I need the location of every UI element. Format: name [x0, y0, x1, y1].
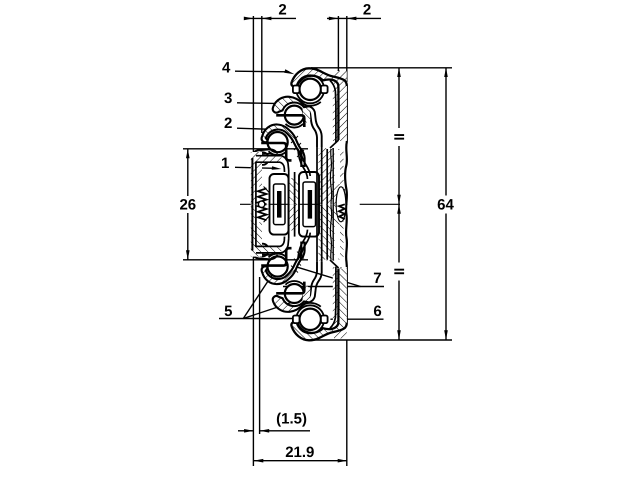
cage scallop under ball 1 — [300, 102, 321, 106]
ball 3 (top small ball) — [268, 132, 288, 152]
arrowheads equals top segment — [397, 68, 401, 78]
member3 wall verticals — [316, 147, 318, 204]
label 1 arrowhead — [272, 166, 282, 170]
svg-text:4: 4 — [222, 60, 231, 77]
slash ball 1 bottom — [303, 312, 318, 327]
cage bar through ball 2 — [276, 115, 304, 127]
wide web hatch band (outer rail, mid) — [319, 149, 344, 204]
ball slashes (section marks) — [271, 82, 318, 327]
svg-text:1: 1 — [221, 155, 229, 172]
left centre block (full) — [270, 174, 289, 235]
(1.5) dimension line — [238, 430, 254, 432]
21.9 dimension line — [254, 460, 348, 462]
hatch: outer rail web bottom — [333, 267, 347, 324]
hatch: outer rail mid band — [319, 148, 334, 261]
label 3 leader — [237, 102, 281, 105]
inner member top flange — [252, 149, 277, 161]
svg-text:64: 64 — [437, 197, 454, 214]
svg-text:21.9: 21.9 — [285, 444, 314, 461]
svg-text:26: 26 — [179, 197, 196, 214]
S-curves upper right feeding right block — [298, 149, 308, 180]
outer rail top flange: hatched body — [291, 68, 346, 140]
label 6 leader — [331, 318, 384, 320]
inner member top flange double line — [256, 155, 282, 157]
wavy lance line — [330, 149, 331, 204]
arrowheads 64 — [444, 68, 448, 78]
cage bar through ball 3 — [261, 143, 291, 160]
raceway curl tail — [256, 161, 258, 168]
label 5 arrowhead — [298, 317, 308, 321]
slash ball 3 top — [271, 135, 285, 149]
left spring nubs — [258, 188, 267, 204]
slash ball 3 bottom — [271, 259, 285, 273]
label 2 leader — [237, 128, 271, 129]
top extension line right — [311, 67, 452, 69]
svg-text:6: 6 — [373, 303, 381, 320]
slash ball 1 top — [303, 82, 318, 97]
dimension line 2 right — [327, 17, 381, 19]
hatch wedge right of ball 2 — [303, 107, 311, 124]
svg-text:2: 2 — [363, 1, 371, 18]
mid vertical sheet walls — [288, 170, 290, 204]
funnel diagonals — [264, 187, 270, 193]
arrowheads (1.5) — [244, 429, 254, 433]
ball 2 (top middle ball) — [285, 106, 304, 125]
label 4 arrowhead — [284, 69, 294, 74]
svg-text:5: 5 — [224, 303, 232, 320]
slash ball 2 bottom — [288, 287, 301, 300]
equals dimension line bottom — [398, 281, 400, 340]
svg-text:3: 3 — [224, 90, 232, 107]
equals sign bottom — [394, 269, 404, 274]
label 6 arrowhead — [330, 317, 340, 321]
member 3 S-transition to core — [304, 106, 322, 147]
label 4 leader — [235, 70, 289, 73]
mid band transition top — [330, 140, 339, 268]
centre line — [240, 203, 348, 205]
dimension 2 (right pair) extension lines — [337, 16, 339, 83]
hatch: outer rail web top — [334, 71, 347, 85]
arrowheads 26 — [186, 149, 190, 159]
white lens in web at centreline — [336, 187, 346, 222]
arrowheads for dim 2 left (outside, pointing in) — [244, 17, 254, 21]
outer rail top flange tip hook and inner arc — [291, 76, 338, 140]
label 1 leader — [235, 167, 275, 168]
dimension line 2 left — [244, 17, 296, 19]
label 2 arrowhead — [268, 127, 278, 131]
white pocket for spring nubs — [256, 187, 270, 205]
inner member left wall pair — [251, 158, 253, 204]
ball 1 retainer ring (top) — [296, 75, 324, 103]
throat hatch lines right of ball 3 — [291, 136, 304, 157]
label 7 leader — [283, 286, 384, 288]
label 5 leader — [219, 318, 304, 320]
member 3 flange over ball 2 (hatched) — [273, 97, 309, 113]
outer rail right edge (full height, wavy in middle) — [339, 71, 347, 339]
small centre circle left — [258, 201, 264, 207]
26 dimension line — [187, 149, 189, 196]
arrowheads for dim 2 right — [329, 17, 339, 21]
equals dimension line top — [398, 68, 400, 129]
right spring jags inside lens — [339, 190, 345, 205]
svg-text:(1.5): (1.5) — [276, 411, 307, 428]
ball 1 retainer left tab — [293, 86, 300, 94]
member 2 flange over ball 3 (hatched) — [262, 124, 305, 166]
cage scallop under ball 2 — [286, 124, 304, 128]
left wall hatch — [251, 152, 262, 204]
dimension 2 (left pair) extension lines — [252, 16, 254, 466]
verticals inside web hatch — [326, 149, 328, 204]
arrowheads equals bottom segment — [397, 204, 401, 214]
64 dimension line — [445, 68, 447, 196]
ball 1 (top big ball) — [300, 79, 321, 100]
hatch between centre blocks — [290, 178, 300, 204]
svg-text:2: 2 — [278, 1, 286, 18]
dimension (1.5) right extension line — [259, 277, 261, 434]
label 3 arrowhead — [278, 102, 288, 106]
arrowheads 21.9 — [254, 459, 263, 463]
svg-text:2: 2 — [224, 115, 232, 132]
flange neck curves down-right — [282, 156, 289, 170]
right centre block (full) — [299, 172, 319, 237]
inner member flange hatch band — [256, 156, 282, 162]
svg-text:7: 7 — [373, 270, 381, 287]
outer rail web inner edge bottom — [338, 268, 340, 339]
slash ball 2 top — [288, 108, 301, 121]
cage scallop under ball 3 — [269, 151, 287, 155]
bottom extension line right — [311, 339, 452, 341]
equals sign top — [394, 134, 404, 139]
outer rail web inner edge top — [338, 71, 340, 141]
detent circle upper — [256, 152, 269, 165]
outer rail top flange outer edge (heavy) — [292, 68, 347, 86]
white slot in web transition — [335, 150, 341, 184]
ball 1 retainer right tab — [321, 86, 328, 94]
inner web arc line — [330, 81, 336, 143]
